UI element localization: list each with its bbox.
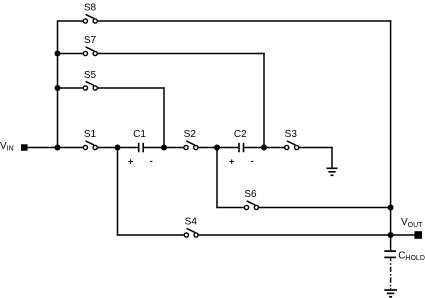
svg-text:+: + [229, 157, 234, 167]
capacitor C1 [139, 143, 144, 153]
switch S6 [244, 201, 258, 210]
wire left vertical rail [57, 20, 59, 147]
svg-text:-: - [150, 156, 153, 166]
svg-text:S2: S2 [184, 129, 197, 140]
wire S5 row left segment [58, 87, 84, 89]
node junction S5 drop on main rail [161, 145, 167, 151]
svg-text:S1: S1 [84, 129, 97, 140]
svg-text:C1: C1 [133, 129, 146, 140]
node junction S6 branch on main rail [214, 145, 220, 151]
wire main rail S2 to C2 [198, 147, 238, 149]
node junction S7/left rail [55, 51, 61, 57]
wire S7 row left segment [58, 53, 84, 55]
wire dash-dot below CHOLD [390, 258, 392, 289]
wire S6 row left segment [216, 207, 244, 209]
wire S4 row right segment [198, 234, 390, 236]
node junction S5/left rail [55, 85, 61, 91]
switch S8 [83, 14, 97, 23]
node junction S4 VOUT/right rail [388, 232, 394, 238]
switch S2 [184, 141, 198, 150]
wire main rail S3 to ground corner [299, 147, 333, 149]
wire right vertical rail [390, 20, 392, 250]
wire S4 drop from main rail [117, 148, 119, 236]
wire S6 drop from main rail [216, 148, 218, 209]
switch S5 [83, 81, 97, 90]
switch S1 [83, 141, 97, 150]
capacitor CHOLD [384, 251, 396, 257]
wire VOUT stub [391, 234, 415, 236]
ground (CHOLD) [384, 290, 397, 297]
svg-text:S8: S8 [84, 3, 97, 14]
switch S7 [83, 47, 97, 56]
wire S8 row left segment [58, 20, 84, 22]
svg-text:C2: C2 [234, 129, 247, 140]
wire S5 row right segment [97, 87, 164, 89]
wire main rail C2 to S3 [244, 147, 284, 149]
switch S4 [184, 228, 198, 237]
svg-text:S6: S6 [244, 189, 257, 200]
wire main rail S1 to C1 [97, 147, 138, 149]
wire main rail VIN to S1 [28, 147, 84, 149]
wire S4 row left segment [117, 234, 185, 236]
ground (S3) [327, 168, 338, 175]
node junction left rail/main rail [55, 145, 61, 151]
wire S6 row right segment [259, 207, 391, 209]
wire S7 drop to main rail [263, 53, 265, 148]
svg-text:+: + [128, 157, 133, 167]
wire S5 drop to main rail [163, 87, 165, 147]
svg-text:S7: S7 [84, 35, 97, 46]
terminal VIN square [21, 144, 28, 150]
node junction S7 drop on main rail [261, 145, 267, 151]
node junction S6/right rail [388, 205, 394, 211]
wire S8 row right segment to right rail [97, 20, 391, 22]
svg-text:S5: S5 [84, 70, 97, 81]
switch S3 [285, 141, 299, 150]
svg-text:S4: S4 [185, 216, 198, 227]
wire S7 row right segment [97, 53, 264, 55]
svg-text:S3: S3 [285, 129, 298, 140]
terminal VOUT square [414, 231, 422, 239]
svg-text:-: - [251, 156, 254, 166]
wire main rail C1 to S2 [144, 147, 184, 149]
wire S3 ground stem [331, 147, 333, 169]
node junction S4 branch on main rail [115, 145, 121, 151]
capacitor C2 [239, 143, 244, 153]
